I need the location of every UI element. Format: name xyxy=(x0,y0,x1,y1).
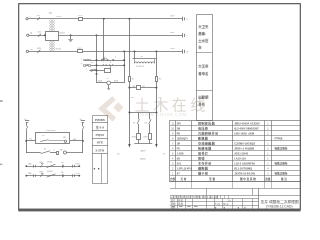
svg-text:FM: FM xyxy=(60,150,63,152)
arrow left down xyxy=(128,144,130,148)
rung connector 2 xyxy=(62,174,64,177)
rung pushbutton xyxy=(40,164,42,167)
node wire3 a xyxy=(123,50,125,52)
svg-text:JX2TN-16 6/0.5W: JX2TN-16 6/0.5W xyxy=(234,171,255,175)
rung start terminal xyxy=(25,175,27,177)
node wire1 a xyxy=(103,18,105,20)
svg-text:YWK2000: YWK2000 xyxy=(45,130,56,132)
terminal L xyxy=(26,18,28,20)
loop top wire xyxy=(133,58,157,60)
svg-text:断路器: 断路器 xyxy=(198,135,209,140)
rung connector 3 xyxy=(72,165,74,168)
rung1 wire to controller xyxy=(26,140,35,142)
svg-text:1: 1 xyxy=(267,152,269,155)
svg-text:3: 3 xyxy=(172,162,174,165)
BOM header row bottom xyxy=(170,181,300,183)
svg-text:CJ20B0-10/19Q/2: CJ20B0-10/19Q/2 xyxy=(234,141,256,145)
svg-text:XT: XT xyxy=(177,172,181,175)
svg-text:YB: YB xyxy=(140,56,144,58)
svg-text:c: c xyxy=(86,69,87,71)
title mid grid verticals xyxy=(214,198,216,209)
svg-text:HTE: HTE xyxy=(97,141,103,145)
svg-text:8: 8 xyxy=(172,137,174,140)
svg-text:11: 11 xyxy=(171,122,174,125)
svg-text:大卫天: 大卫天 xyxy=(198,24,209,29)
watermark logo chevron xyxy=(102,100,112,118)
branch 2KM xyxy=(149,112,151,119)
svg-text:1-2: 1-2 xyxy=(103,57,106,59)
rung connector 3 xyxy=(72,174,74,177)
svg-text:至 量: 至 量 xyxy=(209,177,215,181)
svg-text:N5: N5 xyxy=(142,86,144,88)
svg-text:4: 4 xyxy=(267,167,269,170)
terminal N xyxy=(27,34,29,36)
lamp wire left xyxy=(96,74,98,83)
svg-text:6: 6 xyxy=(54,149,55,151)
left contact xyxy=(26,126,28,130)
drawing frame border xyxy=(19,4,301,210)
controller inner coil xyxy=(64,140,66,142)
transformer TC secondary winding xyxy=(50,41,55,50)
svg-text:备 注: 备 注 xyxy=(280,177,287,181)
node lower bus right xyxy=(155,111,157,113)
svg-text:JR36-+1 40Q/8M: JR36-+1 40Q/8M xyxy=(234,146,254,150)
title block top line xyxy=(170,188,300,190)
svg-text:KT: KT xyxy=(145,122,148,124)
row2 left contact blocks xyxy=(84,65,86,67)
svg-text:7: 7 xyxy=(172,142,174,145)
svg-text:信号灯: 信号灯 xyxy=(198,150,209,155)
svg-text:V4: V4 xyxy=(158,97,161,99)
heater coil xyxy=(134,62,154,63)
svg-text:LA19-11A: LA19-11A xyxy=(234,156,246,160)
notes table divider 1 xyxy=(196,52,212,54)
transformer TC core box xyxy=(46,32,59,41)
node row1 v1 xyxy=(96,59,98,61)
svg-text:土水压: 土水压 xyxy=(198,38,209,43)
svg-text:61: 61 xyxy=(44,149,46,151)
svg-text:共1张: 共1张 xyxy=(215,202,221,206)
node row3 xyxy=(96,69,98,71)
svg-text:1QF(3QF): 1QF(3QF) xyxy=(177,137,188,140)
node wire1 b xyxy=(128,18,130,20)
isolator mark wire2 xyxy=(38,34,41,37)
svg-text:U5: U5 xyxy=(117,154,120,156)
title rows xyxy=(170,198,259,200)
node wire2 a xyxy=(96,34,98,36)
svg-text:V11: V11 xyxy=(38,32,42,34)
rung wire y=175.7 xyxy=(26,175,79,177)
lamp PJ xyxy=(107,81,111,85)
svg-text:U11: U11 xyxy=(37,15,42,17)
svg-text:批准: 批准 xyxy=(178,202,183,206)
svg-text:7: 7 xyxy=(103,62,104,64)
svg-text:1KM: 1KM xyxy=(132,136,137,138)
right contact xyxy=(82,126,84,130)
lamp wire right xyxy=(111,82,125,84)
svg-text:U: U xyxy=(186,19,188,21)
svg-text:L: L xyxy=(30,15,32,18)
stub to loop top xyxy=(134,51,136,59)
rung connector 2 xyxy=(62,165,64,168)
rung contact xyxy=(47,174,56,177)
svg-text:N202: N202 xyxy=(60,32,66,34)
rung start terminal xyxy=(25,165,27,167)
frame bottom thick line xyxy=(18,209,300,212)
svg-text:PQV6: PQV6 xyxy=(96,133,105,137)
row1 left contact blocks xyxy=(84,60,86,61)
svg-text:主令开关: 主令开关 xyxy=(198,160,212,165)
svg-text:LW2-16/32 +20M: LW2-16/32 +20M xyxy=(234,131,254,135)
rung2 coil FM xyxy=(63,151,66,154)
svg-text:1SA: 1SA xyxy=(28,163,32,166)
svg-text:380V: 380V xyxy=(140,151,146,153)
cluster row1 wire xyxy=(84,60,124,62)
svg-text:N201: N201 xyxy=(56,16,62,18)
svg-text:1-2FU,(3-4FU): 1-2FU,(3-4FU) xyxy=(177,167,193,170)
svg-text:N203: N203 xyxy=(56,49,62,51)
svg-text:1: 1 xyxy=(267,147,269,150)
svg-text:RD: RD xyxy=(177,132,181,135)
row3 device box xyxy=(105,69,111,73)
svg-text:1: 1 xyxy=(267,162,269,165)
notes table box xyxy=(197,15,213,121)
svg-text:图 中 及 其 他: 图 中 及 其 他 xyxy=(240,177,256,181)
vertical bus right from L3 xyxy=(156,51,158,144)
resistor R1 xyxy=(129,77,131,82)
svg-text:V: V xyxy=(186,35,188,37)
title block second line xyxy=(170,195,300,197)
vertical wire from L2 xyxy=(96,35,98,74)
terminal PE xyxy=(26,50,28,52)
svg-text:PE: PE xyxy=(30,49,33,51)
svg-text:控制变压器: 控制变压器 xyxy=(198,120,216,125)
svg-text:W: W xyxy=(186,52,189,54)
terminal strip table xyxy=(93,116,108,184)
arrow right down xyxy=(155,144,157,148)
watermark logo diamond xyxy=(113,102,123,112)
svg-text:端子排: 端子排 xyxy=(198,170,209,175)
svg-text:R1: R1 xyxy=(132,79,136,81)
svg-text:交流接触器: 交流接触器 xyxy=(198,140,216,145)
svg-text:1-2HD: 1-2HD xyxy=(177,152,184,155)
svg-text:SB: SB xyxy=(177,157,181,160)
svg-text:特殊注明条: 特殊注明条 xyxy=(275,161,288,165)
contact circle on vertical a xyxy=(103,58,105,60)
svg-text:U4: U4 xyxy=(131,97,134,99)
svg-text:4: 4 xyxy=(172,157,174,160)
node left rail xyxy=(25,140,27,142)
svg-text:5: 5 xyxy=(172,152,174,155)
cluster row3 wire xyxy=(89,70,111,72)
svg-text:1: 1 xyxy=(267,172,269,175)
rung pushbutton xyxy=(40,174,42,177)
title right divider xyxy=(258,188,260,209)
branch 1KM xyxy=(138,112,140,119)
svg-text:电压表: 电压表 xyxy=(198,125,209,130)
svg-text:1KM: 1KM xyxy=(75,163,79,165)
wire2 end connector xyxy=(182,33,184,37)
row3 stub to row2 xyxy=(110,65,112,68)
wire L3 xyxy=(29,51,183,53)
svg-text:1M: 1M xyxy=(177,142,180,145)
svg-text:(YX8286-12.CAD): (YX8286-12.CAD) xyxy=(266,205,293,209)
svg-text:2: 2 xyxy=(172,167,174,170)
vertical wire from L1 node a xyxy=(103,19,105,60)
svg-text:FKM1: FKM1 xyxy=(47,161,53,163)
svg-text:5B: 5B xyxy=(61,172,64,174)
BOM columns xyxy=(175,121,177,182)
svg-text:审核: 审核 xyxy=(171,206,176,210)
notes table divider 2 xyxy=(196,90,212,92)
svg-text:6: 6 xyxy=(172,147,174,150)
svg-text:9: 9 xyxy=(172,132,174,135)
wire3 end connector xyxy=(182,49,184,53)
rung2 wire xyxy=(26,152,41,154)
svg-text:青申名: 青申名 xyxy=(198,71,208,76)
svg-text:第1张: 第1张 xyxy=(223,202,229,206)
rung end terminal xyxy=(78,175,80,177)
svg-text:V5: V5 xyxy=(163,154,166,156)
svg-text:5-6: 5-6 xyxy=(91,62,94,64)
svg-text:万能转换开关: 万能转换开关 xyxy=(197,130,219,135)
svg-text:PJ: PJ xyxy=(107,78,109,80)
node wire3 stub xyxy=(134,50,136,52)
terminal strip dots xyxy=(94,168,96,170)
svg-text:M8: M8 xyxy=(63,137,66,139)
svg-text:N07: N07 xyxy=(171,15,176,17)
lamp ground stub xyxy=(108,85,110,89)
svg-text:LS2-2 A20/20F6A: LS2-2 A20/20F6A xyxy=(234,161,255,165)
node v1 bottom xyxy=(96,73,98,75)
svg-text:JBK2-450VA AC220V: JBK2-450VA AC220V xyxy=(234,121,260,125)
rung1 wire to right rail xyxy=(70,140,83,142)
svg-text:1FU: 1FU xyxy=(78,15,83,17)
wire L1 xyxy=(28,18,182,20)
svg-text:3: 3 xyxy=(115,57,116,59)
svg-text:KT: KT xyxy=(133,122,136,124)
svg-text:AD11-25/40: AD11-25/40 xyxy=(234,151,248,155)
svg-text:特殊注明条: 特殊注明条 xyxy=(275,146,288,150)
svg-text:2FU: 2FU xyxy=(78,48,83,50)
controller box xyxy=(36,133,70,144)
svg-text:1: 1 xyxy=(172,172,174,175)
svg-text:1: 1 xyxy=(267,127,269,130)
svg-text:2SA: 2SA xyxy=(28,172,32,175)
rung connector 1 xyxy=(33,165,35,168)
svg-text:N1: N1 xyxy=(42,135,44,137)
svg-text:出勤期: 出勤期 xyxy=(198,95,209,100)
title small header strip xyxy=(173,195,175,198)
branch bottom bus xyxy=(134,143,152,145)
svg-text:1: 1 xyxy=(267,142,269,145)
svg-text:2FU: 2FU xyxy=(177,122,182,125)
lower bus xyxy=(129,112,156,114)
svg-text:N: N xyxy=(30,32,32,35)
rung contact xyxy=(47,164,56,167)
svg-text:校对: 校对 xyxy=(178,198,183,202)
BOM rows xyxy=(170,125,300,127)
rung2 contact xyxy=(41,151,50,154)
svg-text:天 材: 天 材 xyxy=(180,177,186,181)
svg-text:熔断器: 熔断器 xyxy=(198,165,209,170)
svg-text:R2: R2 xyxy=(159,79,163,81)
node at box left xyxy=(44,34,46,36)
node row1 vd xyxy=(123,59,125,61)
wire L2 xyxy=(29,35,183,37)
cluster row2 wire xyxy=(84,65,124,67)
svg-text:SA1: SA1 xyxy=(177,162,182,165)
svg-text:PW/6B: PW/6B xyxy=(95,118,106,122)
svg-text:B9L8: B9L8 xyxy=(140,159,146,161)
svg-text:大王帝: 大王帝 xyxy=(198,64,209,69)
svg-text:8: 8 xyxy=(110,62,111,64)
transformer TC primary winding xyxy=(50,20,55,32)
title mid verticals upper xyxy=(206,188,208,195)
svg-text:10: 10 xyxy=(171,127,174,130)
svg-text:P: P xyxy=(81,63,83,65)
row1 contact circles xyxy=(101,59,103,61)
row2 x contacts xyxy=(103,64,104,65)
fuse FU2 xyxy=(78,50,83,53)
node mid bus right xyxy=(155,87,157,89)
svg-text:a: a xyxy=(81,58,83,60)
vertical bus left from L1 xyxy=(129,19,131,144)
wire1 end connector xyxy=(182,17,184,21)
terminal strip divider xyxy=(101,154,103,184)
svg-text:双量: 双量 xyxy=(264,177,271,181)
svg-text:2KM: 2KM xyxy=(143,136,148,138)
rung end terminal xyxy=(78,165,80,167)
svg-text:FKM2: FKM2 xyxy=(47,171,53,173)
svg-text:SB3: SB3 xyxy=(39,171,44,173)
svg-text:1: 1 xyxy=(267,132,269,135)
node right rail xyxy=(82,140,84,142)
svg-text:主 6 9: 主 6 9 xyxy=(96,125,105,130)
svg-text:2W: 2W xyxy=(177,127,181,130)
svg-text:N08: N08 xyxy=(170,32,175,34)
svg-text:按钮: 按钮 xyxy=(198,155,205,160)
svg-text:制图: 制图 xyxy=(171,202,176,206)
node wire3 b xyxy=(155,50,157,52)
svg-text:FTP68: FTP68 xyxy=(275,136,283,140)
row3 contact circle xyxy=(91,70,93,72)
mid bus meter box xyxy=(137,86,141,90)
svg-text:台份: 台份 xyxy=(170,177,176,181)
left edge registration mark xyxy=(0,100,3,102)
svg-text:6L2-450V 5890/220F: 6L2-450V 5890/220F xyxy=(234,126,259,130)
svg-text:FR: FR xyxy=(177,147,180,150)
BOM table box xyxy=(170,121,301,182)
rung connector 1 xyxy=(33,174,35,177)
svg-text:N09: N09 xyxy=(171,48,176,50)
ground symbol xyxy=(70,34,72,36)
title left verticals xyxy=(177,198,179,209)
controller inner contact xyxy=(40,140,48,142)
svg-text:热继电器: 热继电器 xyxy=(198,145,212,150)
node row2 v1 xyxy=(96,64,98,66)
svg-text:TC: TC xyxy=(49,11,53,15)
rung2 small box xyxy=(57,152,59,155)
svg-text:旦名: 旦名 xyxy=(198,102,205,107)
svg-text:W11: W11 xyxy=(37,48,42,50)
isolator mark wire1 xyxy=(37,17,40,20)
fuse FU1 xyxy=(79,18,83,21)
svg-text:R0 R0 R0: R0 R0 R0 xyxy=(136,66,144,68)
empty row column stubs xyxy=(175,182,177,189)
rung wire y=166.1 xyxy=(26,166,79,168)
svg-text:设计: 设计 xyxy=(171,198,176,202)
svg-text:特殊注明条: 特殊注明条 xyxy=(275,171,288,175)
svg-text:1: 1 xyxy=(267,122,269,125)
svg-text:N4: N4 xyxy=(133,86,135,88)
vertical wire from L3 xyxy=(124,51,126,83)
svg-text:费事:: 费事: xyxy=(198,31,206,36)
loop mid bus xyxy=(129,87,156,89)
left edge registration mark 2 xyxy=(0,164,2,166)
svg-text:RL1-20/T63MQ: RL1-20/T63MQ xyxy=(234,166,252,170)
resistor R2 xyxy=(156,77,158,82)
node lower bus left xyxy=(128,111,130,113)
svg-text:5B: 5B xyxy=(61,162,64,164)
svg-text:1: 1 xyxy=(267,157,269,160)
node row2 vd xyxy=(123,64,125,66)
isolator mark wire3 xyxy=(38,50,41,53)
svg-text:3-2T/6: 3-2T/6 xyxy=(95,149,104,153)
svg-text:台: 台 xyxy=(198,45,202,50)
svg-text:压井 调整柜二次原理图: 压井 调整柜二次原理图 xyxy=(261,199,299,204)
svg-text:工b: 工b xyxy=(227,199,231,202)
svg-text:2KM: 2KM xyxy=(75,173,79,175)
node mid bus left xyxy=(128,87,130,89)
